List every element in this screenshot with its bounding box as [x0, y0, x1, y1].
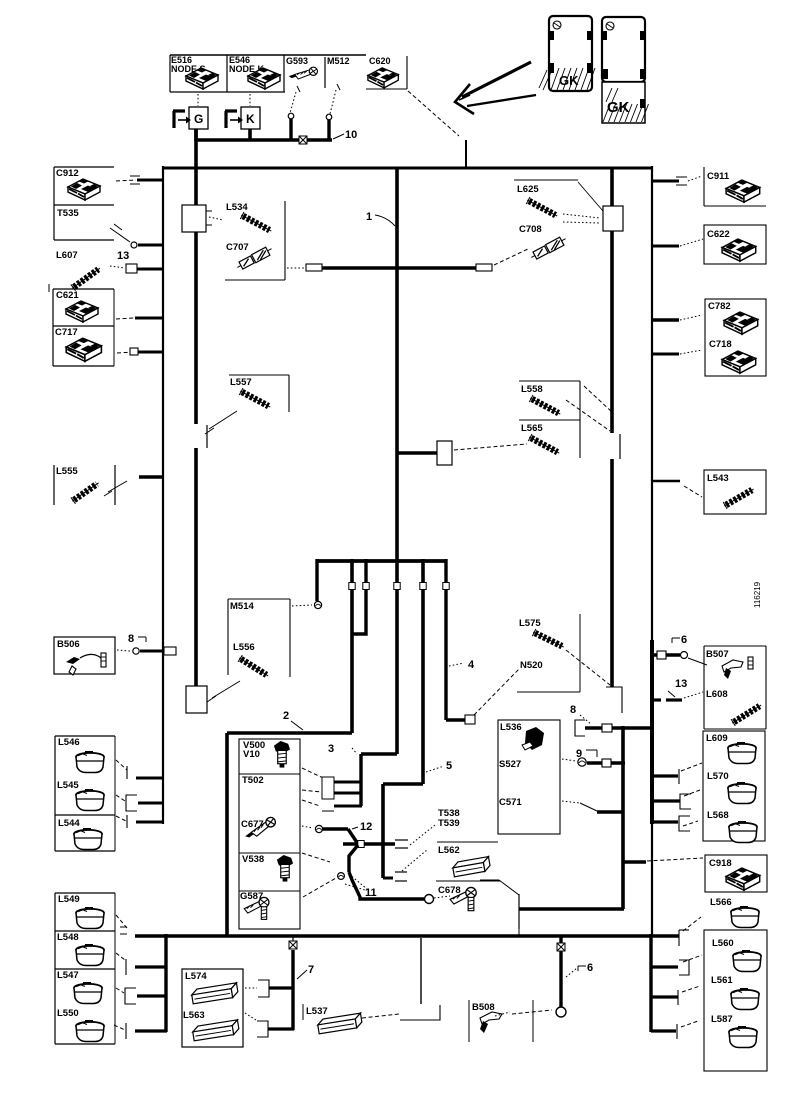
connector L625 [514, 179, 578, 181]
wire E546 to switch K [249, 94, 251, 106]
lamp box L609 group [703, 731, 765, 841]
wire bus drop M514 [315, 559, 318, 601]
connector L558 L565 box [519, 380, 580, 382]
lamp L537 glyph [317, 1013, 363, 1034]
svg-text:L568: L568 [707, 810, 729, 821]
connector on left bus top [182, 205, 206, 232]
wire vertical x623 [621, 726, 625, 909]
connector C912 box [54, 166, 114, 168]
wire L537 lead [362, 1014, 399, 1018]
svg-text:T539: T539 [438, 818, 460, 829]
lamp L544 glyph [74, 828, 102, 850]
wire 8 [575, 720, 585, 736]
svg-text:13: 13 [117, 250, 129, 262]
lamp L549 glyph [76, 907, 104, 929]
wire left inner bus [194, 127, 198, 206]
wire L587 stub [651, 1029, 676, 1032]
connector C622 box [704, 225, 766, 264]
ground G587 glyph [244, 897, 269, 919]
lamp L548 glyph [76, 944, 104, 966]
connector C911 box [703, 167, 705, 206]
terminal T538 T539 marks [395, 839, 408, 841]
lamp L547 glyph [74, 982, 102, 1004]
connector C918 glyph [726, 868, 760, 890]
lamp L561 glyph [731, 988, 759, 1010]
svg-text:L536: L536 [500, 722, 522, 733]
wire below-frame right bus [649, 934, 652, 1032]
svg-text:12: 12 [360, 821, 372, 833]
label 4 [449, 663, 464, 666]
connector C717 glyph [66, 338, 101, 361]
connector L575 glyph [531, 629, 565, 651]
wire L557 to bus break [209, 411, 237, 429]
connector L557 glyph [238, 388, 272, 411]
connector C912 glyph [68, 179, 100, 200]
switch contact G593 [288, 113, 294, 119]
wire L556 to bus connector [212, 681, 240, 698]
svg-text:L607: L607 [56, 250, 78, 261]
svg-text:C782: C782 [708, 301, 731, 312]
wire right inner bus [610, 168, 614, 433]
svg-text:T535: T535 [57, 208, 79, 219]
valve V538 glyph [277, 855, 293, 882]
wire center bus horizontal [317, 559, 446, 563]
wire bus drop 4 [444, 559, 447, 720]
module E546 connector glyph [248, 68, 280, 89]
car top-view box GK 2 [602, 17, 645, 82]
svg-text:C911: C911 [707, 171, 730, 182]
lamp box L546 group [55, 735, 115, 737]
wire bus drop 2 [350, 559, 354, 733]
svg-text:116219: 116219 [753, 581, 762, 608]
lamp L545 glyph [76, 789, 104, 811]
svg-text:L566: L566 [710, 897, 732, 908]
connector L543 glyph [722, 486, 755, 510]
wire L565 stub [397, 451, 437, 454]
svg-text:L574: L574 [185, 971, 207, 982]
svg-text:L557: L557 [230, 377, 252, 388]
module M514 box [228, 598, 290, 600]
svg-text:L555: L555 [56, 466, 78, 477]
sensor B506 box [54, 637, 115, 674]
lamp L570 glyph [728, 782, 756, 804]
wire bus drop 3 [353, 559, 366, 634]
sensor B508 glyph [480, 1012, 502, 1024]
wire main frame top [163, 167, 652, 170]
svg-text:C621: C621 [56, 290, 79, 301]
connector L555 [53, 465, 55, 505]
wire T502 leads from box [302, 768, 321, 777]
wire L547 stub [125, 988, 136, 1004]
svg-text:C718: C718 [709, 339, 732, 350]
connector L575 bracket [517, 691, 580, 693]
ground G593 screw glyph [288, 64, 318, 82]
lamp L562 [437, 841, 498, 843]
svg-text:L545: L545 [57, 780, 79, 791]
wire M514 to twist [292, 605, 312, 606]
svg-text:N520: N520 [520, 660, 543, 671]
connector C911 glyph [726, 180, 760, 202]
lamp L609 glyph [728, 742, 756, 764]
lamp L546 glyph [76, 751, 104, 773]
sensor B506 glyph [66, 657, 80, 664]
connector L557 box [229, 374, 289, 376]
svg-text:L587: L587 [711, 1014, 733, 1025]
svg-text:L608: L608 [706, 689, 728, 700]
svg-text:L558: L558 [521, 384, 543, 395]
wire L549 to frame corner [116, 915, 127, 928]
connector C718 glyph [722, 351, 756, 373]
svg-text:T502: T502 [242, 775, 264, 786]
wire right frame heavy section [650, 640, 654, 824]
svg-text:L544: L544 [58, 818, 80, 829]
wire L546 to frame [116, 760, 127, 770]
svg-text:C622: C622 [707, 229, 730, 240]
svg-text:L546: L546 [58, 737, 80, 748]
wire C718 stub [652, 353, 679, 356]
svg-text:L534: L534 [226, 202, 248, 213]
sensor B507 box [704, 645, 766, 647]
lamp L566 glyph [731, 906, 759, 928]
svg-text:13: 13 [675, 678, 687, 690]
lamp box L574 L563 [182, 969, 243, 1047]
connector L543 box [704, 470, 766, 514]
connector box L534 C707 [225, 279, 285, 281]
wire N520 lead [474, 669, 519, 715]
svg-text:C918: C918 [709, 858, 732, 869]
switch S527 glyph [525, 727, 544, 750]
wire C717 to frame [117, 352, 133, 353]
sensor B507 glyph [722, 660, 743, 672]
svg-text:M512: M512 [327, 56, 350, 66]
wire C571 [562, 801, 580, 803]
svg-text:C708: C708 [519, 224, 542, 235]
bolt C678 glyph [450, 887, 476, 910]
wire below-frame left bus [164, 934, 167, 1032]
svg-text:L563: L563 [183, 1010, 205, 1021]
svg-text:6: 6 [681, 634, 687, 646]
svg-text:M514: M514 [230, 601, 254, 612]
svg-text:S527: S527 [499, 759, 521, 770]
module E516 connector glyph [186, 68, 218, 89]
lamp L587 glyph [729, 1026, 757, 1048]
wire main frame right [651, 166, 653, 937]
wire L566 bracket [678, 930, 680, 946]
svg-text:5: 5 [446, 760, 452, 772]
svg-text:L547: L547 [57, 970, 79, 981]
svg-text:V10: V10 [243, 749, 260, 760]
svg-text:8: 8 [570, 704, 576, 716]
wire G587 lead [303, 878, 336, 897]
connector L558 glyph [528, 395, 562, 418]
module box V500 column [239, 739, 300, 929]
svg-text:L609: L609 [706, 733, 728, 744]
wire switch G drop [194, 129, 198, 141]
wire 2 loop [227, 731, 352, 735]
svg-text:4: 4 [468, 659, 475, 671]
lamp L550 glyph [76, 1020, 104, 1042]
switch symbol K [241, 107, 260, 129]
svg-text:L543: L543 [707, 473, 729, 484]
car top-view box GK 1 [549, 16, 592, 91]
wire L574 lead [245, 987, 257, 989]
connector C782 glyph [724, 312, 758, 334]
svg-text:L550: L550 [57, 1008, 79, 1019]
wire 6 right [652, 653, 680, 656]
wire L544 to frame [116, 816, 126, 821]
svg-text:L549: L549 [58, 894, 80, 905]
svg-text:L565: L565 [521, 423, 543, 434]
sensor B508 box [468, 1000, 470, 1042]
svg-text:L560: L560 [712, 938, 734, 949]
svg-text:B508: B508 [472, 1002, 495, 1013]
splice on top bus [299, 136, 307, 144]
wire 11 zigzag [349, 845, 358, 872]
wire B508 drop [559, 936, 562, 1007]
label 10 [333, 134, 344, 139]
wire C782 stub [652, 318, 679, 321]
wire crossbar y844 [343, 842, 395, 845]
valve V500 glyph [274, 741, 290, 768]
svg-text:L625: L625 [517, 184, 539, 195]
svg-text:L561: L561 [711, 975, 733, 986]
switch contact M512 [326, 114, 332, 120]
wire L625 to right bus connector [563, 214, 600, 218]
wire C918 [623, 860, 646, 863]
wire 5 path [383, 782, 423, 786]
wire L568 stub [652, 820, 678, 823]
wire L561 stub [651, 995, 678, 998]
connector box left bus bottom [186, 686, 207, 713]
wire C621 to frame [116, 318, 134, 319]
wire L534 dashes to bus connector [209, 217, 223, 220]
wire 13 left to frame [126, 264, 137, 273]
svg-text:L575: L575 [519, 618, 541, 629]
wire B506 to frame [117, 650, 130, 651]
wire L548 stub [125, 959, 127, 975]
wire 13 right [652, 698, 661, 701]
wire center divider bus 1 [395, 168, 399, 562]
svg-text:7: 7 [308, 964, 314, 976]
ground G593 label [324, 57, 326, 88]
wire switch K drop [248, 129, 252, 141]
connector left bus break [206, 425, 208, 448]
wire 9 [562, 759, 576, 761]
svg-text:B507: B507 [706, 649, 729, 660]
wire L609 stub [652, 774, 678, 777]
svg-text:1: 1 [366, 211, 372, 223]
lamp L560 glyph [733, 950, 761, 972]
svg-text:G: G [194, 112, 203, 126]
connector L534 glyph [239, 212, 273, 235]
connector C621 glyph [66, 301, 98, 322]
wire L545 to frame [126, 795, 137, 811]
svg-text:GK: GK [607, 99, 630, 116]
wire center divider lower [395, 562, 399, 754]
connector L556 glyph [237, 655, 270, 680]
wire L560 stub [651, 965, 678, 968]
wire L563 lead [245, 1013, 256, 1020]
wire main frame bottom [135, 934, 679, 938]
node box E516 NODE S [170, 54, 366, 56]
wire top bus 10 [196, 138, 332, 142]
svg-text:C678: C678 [438, 885, 461, 896]
connector right bus break [619, 434, 621, 459]
wire E516 to switch G [197, 94, 199, 106]
svg-text:C620: C620 [369, 56, 391, 66]
wire right bus bottom bracket [606, 687, 622, 713]
svg-text:L562: L562 [438, 845, 460, 856]
connector on right bus top [603, 206, 623, 231]
wire T502 pins [322, 777, 334, 799]
svg-text:L556: L556 [233, 642, 255, 653]
wire C622 stub [652, 245, 679, 248]
wire drop x421 [420, 938, 422, 1004]
svg-text:6: 6 [587, 962, 593, 974]
svg-text:C717: C717 [55, 327, 78, 338]
svg-text:C707: C707 [226, 242, 249, 253]
svg-text:G593: G593 [286, 56, 308, 66]
svg-text:3: 3 [328, 743, 334, 755]
svg-text:L548: L548 [57, 932, 79, 943]
wire B508 to circle [512, 1010, 552, 1014]
lamp L574 glyph [191, 983, 239, 1004]
wire V538 lead [302, 853, 330, 862]
wire to C708 [494, 249, 528, 265]
svg-text:2: 2 [283, 710, 289, 722]
wire L558 to right bus break [566, 400, 610, 431]
wire 3 corner [361, 752, 397, 756]
svg-text:L537: L537 [306, 1006, 328, 1017]
module box L536 S527 C571 [498, 720, 560, 834]
svg-text:C912: C912 [56, 168, 79, 179]
connector L565 glyph [527, 434, 561, 457]
connector C621 box [53, 288, 114, 290]
connector L608 glyph [730, 702, 763, 727]
wire C911 stub [652, 180, 679, 183]
svg-text:GK: GK [559, 73, 579, 88]
connector C782 C718 box [705, 299, 766, 376]
lamp box L549 group [55, 892, 115, 894]
connector square wire 4 [465, 715, 475, 724]
wire main frame left [162, 166, 164, 824]
wire crossbar y268 [287, 267, 305, 269]
svg-text:V538: V538 [242, 854, 264, 865]
wire L555 to frame [108, 481, 127, 492]
svg-text:10: 10 [345, 129, 357, 141]
wire C620 to frame [408, 91, 459, 136]
connector C622 glyph [722, 239, 756, 261]
svg-text:C571: C571 [499, 797, 522, 808]
wire L550 stub [125, 1023, 127, 1039]
svg-text:8: 8 [128, 633, 134, 645]
svg-text:B506: B506 [57, 639, 80, 650]
wire T535 to frame [131, 242, 137, 248]
switch symbol G [189, 107, 208, 129]
svg-text:K: K [246, 112, 255, 126]
bolt C678 [425, 895, 434, 904]
wire bus drop 5 [421, 559, 425, 784]
lamp L563 glyph [192, 1020, 240, 1041]
connector C918 box [705, 855, 767, 892]
wire 12 twist [302, 826, 313, 828]
locator arrow [462, 62, 531, 97]
connector C707 glyph [235, 245, 274, 271]
wire L575 lead [566, 650, 610, 685]
lamp box L560 group [704, 930, 767, 1071]
screw C677 glyph [243, 817, 278, 839]
lamp L568 glyph [729, 821, 757, 843]
wire bottom jog to frame [519, 907, 624, 911]
wire C912 to frame [116, 180, 136, 181]
svg-text:L570: L570 [707, 771, 729, 782]
wire L543 stub [652, 480, 680, 483]
wire drop x519 tail [518, 929, 520, 936]
wire 7 vertical [291, 950, 294, 1030]
wire L570 stub [652, 799, 680, 802]
